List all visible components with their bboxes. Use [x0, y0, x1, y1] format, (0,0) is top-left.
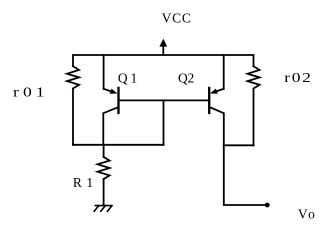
svg-text:VCC: VCC [162, 11, 191, 26]
svg-text:Q2: Q2 [178, 70, 194, 85]
svg-text:Vo: Vo [298, 207, 315, 222]
svg-text:Q1: Q1 [118, 70, 137, 85]
svg-text:R1: R1 [73, 175, 93, 190]
svg-text:r02: r02 [284, 71, 311, 86]
svg-text:r01: r01 [13, 85, 45, 100]
